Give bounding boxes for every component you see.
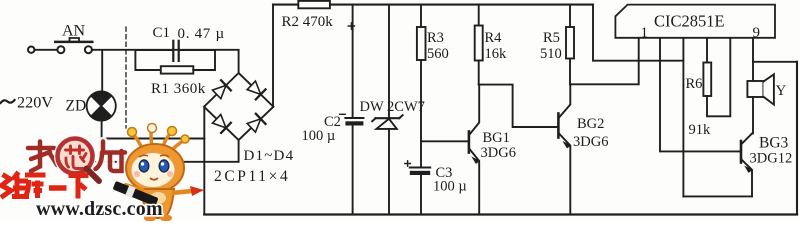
IC pin to speaker <box>752 38 754 81</box>
svg-text:Y: Y <box>776 83 787 99</box>
wire <box>92 49 239 51</box>
seal 找芯片 with white halo <box>28 139 125 182</box>
resistor R3 <box>420 5 422 27</box>
svg-text:3DG6: 3DG6 <box>573 134 608 150</box>
IC CIC2851E <box>615 5 775 38</box>
transistor BG1 <box>468 132 471 153</box>
eyes <box>139 160 149 172</box>
right arm with red flag <box>172 191 192 193</box>
svg-text:3DG6: 3DG6 <box>481 145 516 161</box>
svg-text:R6: R6 <box>686 76 703 92</box>
wire R5/BG2 collector to IC pin 1 <box>570 38 639 84</box>
找 <box>28 146 54 151</box>
svg-text:ZD: ZD <box>66 98 87 115</box>
resistor R4 <box>478 5 480 26</box>
svg-text:BG3: BG3 <box>759 135 789 152</box>
bridge right vertex up to top rail <box>272 5 274 107</box>
svg-text:www.dzsc.com: www.dzsc.com <box>36 198 163 220</box>
left arm + telescope <box>124 185 144 191</box>
片 <box>103 142 125 153</box>
svg-text:560: 560 <box>427 46 449 62</box>
resistor R1 parallel branch <box>135 50 160 70</box>
svg-text:CIC2851E: CIC2851E <box>654 12 725 31</box>
IC pin crossing down to emitter loop <box>682 38 684 196</box>
svg-text:220V: 220V <box>17 94 53 112</box>
wire R4/BG1 node to BG2 base <box>479 85 558 127</box>
diode D1 upper-left (cathode toward top) <box>212 80 265 133</box>
wire speaker node to right edge <box>753 61 797 63</box>
svg-text:BG2: BG2 <box>577 116 604 132</box>
svg-text:3DG12: 3DG12 <box>750 151 793 167</box>
wire R3 node to BG1 base <box>421 140 468 142</box>
resistor R6 between pins <box>706 38 708 63</box>
tilde of ~220V <box>1 100 15 103</box>
handle <box>87 169 100 182</box>
BG3 emitter loop to IC pin <box>683 195 752 197</box>
库 <box>24 175 46 198</box>
svg-text:510: 510 <box>540 46 562 62</box>
mascot <box>112 124 204 222</box>
transistor BG3 <box>740 141 743 163</box>
capacitor C2 electrolytic <box>352 5 354 117</box>
svg-text:C1: C1 <box>153 25 171 41</box>
svg-text:100 µ: 100 µ <box>433 179 467 195</box>
bridge rectifier D1-D4 <box>204 73 273 140</box>
top rail to vdd pin wire <box>593 5 683 61</box>
diode D2 upper-right (cathode toward right) <box>247 81 261 94</box>
svg-text:0. 47 µ: 0. 47 µ <box>178 26 225 42</box>
antennae <box>133 130 184 150</box>
svg-text:16k: 16k <box>485 46 508 62</box>
transistor BG2 <box>557 114 560 138</box>
svg-text:AN: AN <box>62 22 86 39</box>
svg-text:9: 9 <box>753 25 761 41</box>
magnifier ring with 芯 <box>58 139 93 174</box>
resistor R2 <box>298 1 330 8</box>
wire to bridge top <box>238 50 240 73</box>
diode D3 lower-left (cathode toward bottom) <box>212 115 226 128</box>
svg-text:R5: R5 <box>543 30 560 46</box>
IC pin to BG3 base <box>660 38 740 151</box>
right edge wire <box>796 62 798 215</box>
capacitor C1 <box>135 49 171 51</box>
维 <box>1 175 11 198</box>
svg-text:1: 1 <box>641 25 649 41</box>
svg-text:2CP11×4: 2CP11×4 <box>214 168 290 185</box>
svg-text:R1 360k: R1 360k <box>151 81 206 97</box>
下 <box>69 176 89 199</box>
wire ZD to bridge left leg <box>102 138 205 140</box>
body <box>142 189 174 218</box>
svg-text:R2 470k: R2 470k <box>282 14 334 30</box>
svg-text:DW 2CW7: DW 2CW7 <box>360 99 425 115</box>
diode D4 lower-right (cathode toward right) <box>247 119 261 132</box>
top rail <box>273 4 593 6</box>
svg-text:100 µ: 100 µ <box>302 128 336 144</box>
wire <box>34 49 57 51</box>
speaker Y <box>747 81 763 97</box>
terminal, left mains top <box>28 47 34 53</box>
watermark: dzsc seal, mascot, red text <box>1 124 204 222</box>
bridge bottom to mains lower wire <box>60 140 239 162</box>
svg-text:D1~D4: D1~D4 <box>244 148 295 164</box>
brows / mouth <box>139 155 169 157</box>
bridge left vertex down to bottom rail <box>203 107 205 215</box>
svg-text:R3: R3 <box>427 30 444 46</box>
head <box>126 144 184 192</box>
lamp ZD <box>101 50 103 92</box>
svg-text:R4: R4 <box>485 30 503 46</box>
bottom rail <box>204 213 797 215</box>
pushbutton AN <box>57 46 64 53</box>
capacitor C3 electrolytic <box>410 167 430 169</box>
resistor R5 <box>569 5 571 27</box>
svg-text:91k: 91k <box>689 122 712 138</box>
dashed separator <box>125 27 127 128</box>
svg-text:BG1: BG1 <box>483 130 510 146</box>
feet <box>144 215 156 222</box>
一 <box>49 185 67 191</box>
维库一下 red text (hand strokes) <box>1 172 89 199</box>
zener DW <box>388 5 390 117</box>
